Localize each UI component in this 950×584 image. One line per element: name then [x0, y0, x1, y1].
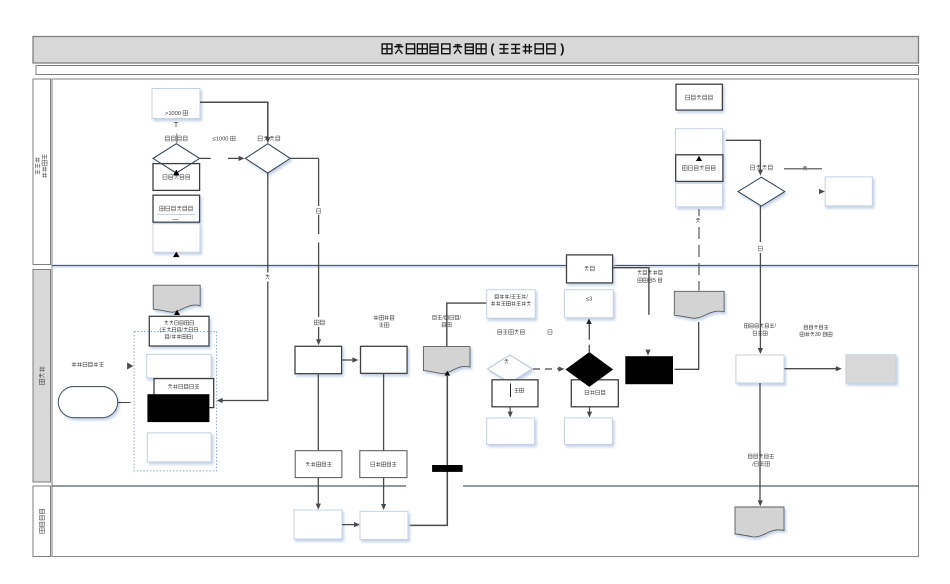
process 组织摸标答疑 box: [361, 346, 408, 373]
label T cursor: [174, 122, 179, 129]
wire 是否通过 no down-left to 编制招标文件: [217, 173, 268, 403]
label 标底金额: [165, 134, 187, 144]
process 总经理审批 (lane1 left): [153, 164, 200, 191]
step bidder box A: [294, 510, 342, 539]
arrowhead into terminal blank box: [819, 189, 825, 194]
black bar on wire: [432, 465, 463, 472]
svg-text:0: 0: [225, 137, 228, 143]
svg-text:): ): [192, 335, 194, 341]
svg-text:): ): [560, 42, 564, 56]
decision black diamond 重新招标: [571, 380, 618, 407]
process 发中标通知书 box: [736, 355, 784, 383]
subtitle strip: [36, 66, 919, 75]
svg-text:—: —: [172, 216, 179, 223]
decision 是否通过 diamond (lane1 left): [245, 144, 290, 173]
terminal gray box: [846, 355, 896, 383]
wire 标书 document up to 计划部: [447, 303, 487, 347]
label 标书有效性: [498, 330, 525, 335]
label 是 on wire: [315, 206, 322, 215]
process 确定招标方式: [149, 316, 209, 346]
process 发标受理: [295, 346, 342, 373]
wire 发标受理 down to 编制投标书 and lane3: [316, 374, 321, 510]
svg-text:3: 3: [589, 296, 592, 302]
wire 副总经理审批 no down to 评标资料 document: [698, 209, 700, 291]
black diamond shape: [566, 353, 612, 387]
process 总经理审批 (lane1 right): [676, 84, 722, 110]
document 标书/保证金/保函 (gray): [423, 347, 470, 374]
label 发标: [312, 317, 326, 327]
svg-text:5: 5: [653, 278, 656, 284]
title bar: [33, 37, 919, 64]
wire 评标 right and down to black box: [613, 268, 649, 315]
label 开标后最长不超过5日: [638, 270, 663, 284]
process 澄清: [492, 380, 538, 407]
black box (center): [625, 356, 673, 384]
svg-text:0: 0: [818, 332, 821, 338]
label 是否通过 (lane1 right): [751, 165, 773, 170]
wire 发中标通知书 down to lane3 document: [758, 383, 763, 506]
arrowhead up into 标底金额 diamond: [173, 170, 180, 176]
process >1000万: [152, 89, 200, 119]
label 中标通知书发出后30日内: [800, 325, 832, 338]
lane label 子公司领导班子: [33, 79, 51, 265]
decision 是否通过 diamond (lane1 right): [738, 177, 785, 206]
label 提出招标需求: [72, 362, 104, 367]
arrowhead up below blank step: [173, 252, 180, 258]
process 评标: [567, 255, 613, 283]
note ≤3: [565, 290, 614, 318]
wire dashed 标书有效性 to black diamond: [533, 366, 564, 371]
lane separator 2 left segment: [52, 485, 406, 487]
label 组织摸标答疑: [374, 316, 394, 328]
wire 发标受理 to 答疑: [342, 357, 359, 362]
wire black diamond up to ≤3: [586, 319, 592, 353]
label 是 (标书有效性): [548, 330, 552, 335]
process 编制投标书: [295, 451, 342, 478]
blank step in container (bottom): [147, 433, 211, 462]
process 调整投标书: [360, 451, 407, 478]
wire 澄清 down to blank: [508, 407, 513, 418]
terminal blank box (lane1 right): [825, 177, 872, 206]
decision 标书有效性 diamond (light): [488, 355, 533, 383]
note 计划部/成本部/其他相关部门参与: [487, 290, 536, 319]
lane separator 1: [52, 266, 919, 268]
arrowhead up into document: [174, 310, 180, 315]
content frame: [52, 79, 919, 557]
wire 标底金额 right stub: [200, 157, 211, 159]
step bidder box B: [360, 511, 408, 539]
wire 发中标通知书 to gray terminal: [785, 366, 842, 371]
svg-text:0: 0: [178, 111, 181, 117]
black highlight rect over 编制招标文件: [147, 394, 209, 422]
blank step below 澄清: [487, 418, 535, 444]
arrowhead into black box top: [645, 350, 650, 356]
wire blank step to 是否通过 diamond (lane1 right): [726, 140, 763, 175]
label 是否通过 (lane1 left): [258, 136, 280, 141]
document 评标资料 (gray): [674, 291, 724, 318]
svg-text:T: T: [174, 122, 179, 129]
wire box A to box B: [342, 522, 360, 527]
blank step above 副总经理审批: [676, 129, 723, 155]
blank step in container (top): [147, 354, 212, 378]
arrowhead up into blank step: [696, 156, 702, 161]
decision 标底金额 diamond: [153, 144, 200, 173]
document 招标立项 (gray): [153, 285, 200, 312]
process 副总经理审批 (lane1 left): [153, 195, 200, 223]
svg-text:(: (: [160, 328, 162, 334]
label 重新招标: [585, 390, 605, 395]
wire stadium stub: [118, 402, 131, 404]
wire 评标资料 down-left into black box: [675, 322, 699, 369]
wire 标书 document down through 黑bar to lane3: [409, 371, 450, 526]
lane label 投标单位: [33, 486, 51, 557]
wire 是否通过 yes to 发标: [290, 158, 321, 345]
lane separator 2 right segment: [463, 485, 919, 487]
document 投标书 (gray, lane3): [735, 507, 784, 537]
label 标书/保证金/保函: [433, 315, 462, 327]
terminator 提出招标需求 stadium: [58, 387, 117, 418]
blank step below 重新招标: [565, 418, 613, 444]
wire >1000万 to 是否通过 diamond: [200, 102, 270, 143]
wire 否 stub right: [784, 166, 822, 171]
dashed container: [134, 332, 217, 471]
arrowhead into dashed container: [127, 363, 133, 370]
blank step below 副总经理审批 (lane1 right): [676, 183, 723, 207]
label 否 (lane1 right): [695, 216, 702, 225]
wire 是否通过 yes down to 发中标通知书: [758, 206, 763, 354]
process 副总经理审批 (lane1 right): [676, 155, 723, 182]
wire dashes into 是否通过 diamond: [228, 156, 245, 161]
process 编制招标文件: [154, 379, 214, 408]
blank step below 副总经理审批 (lane1 left): [153, 224, 200, 253]
label 发中标通知书/感谢函: [744, 324, 776, 336]
lane label 营销部: [33, 270, 51, 483]
wire 重新招标 down to blank: [587, 407, 592, 418]
wire 答疑 down to 调整投标书 and lane3: [381, 373, 386, 510]
label 是 (lane1 right): [757, 244, 764, 253]
label 否 on wire: [264, 273, 271, 282]
label 否 in diamond: [504, 359, 508, 364]
label 中标通知书/感谢函: [748, 454, 773, 468]
label ≤1000万: [213, 136, 236, 142]
